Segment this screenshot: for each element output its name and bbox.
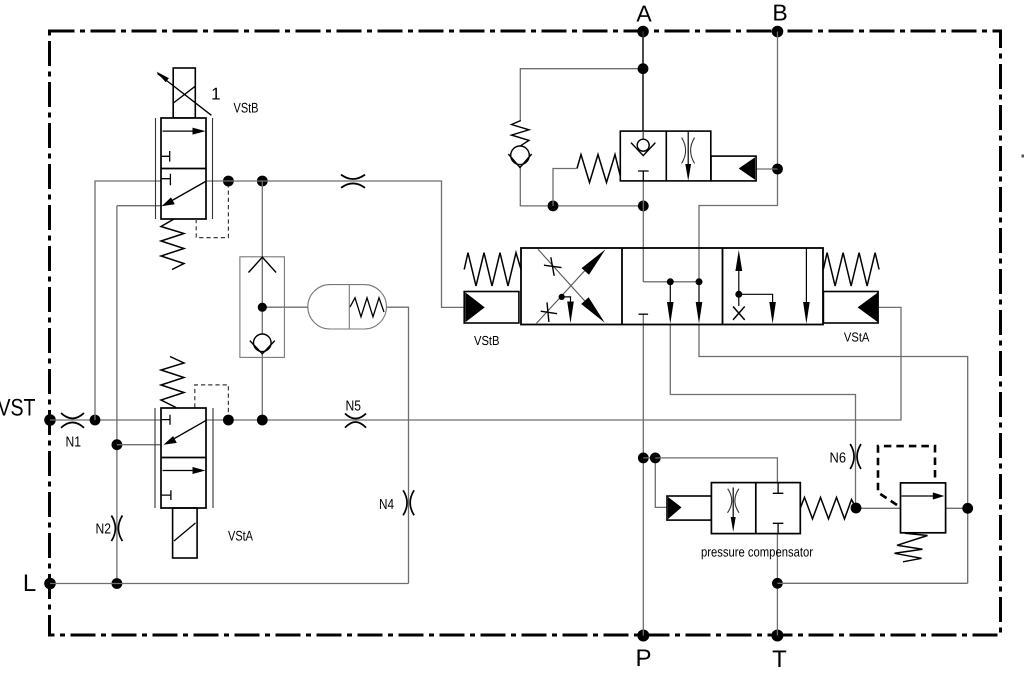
middle position junction dot B xyxy=(696,278,703,285)
svg-text:VStA: VStA xyxy=(228,528,254,544)
VStB top box blocked port xyxy=(161,151,170,162)
dashed pilot line VStB xyxy=(196,186,228,238)
VStB bottom box blocked port xyxy=(161,174,170,185)
wire main valve second LS port to right loop xyxy=(699,325,968,584)
compensator throttle with arrow xyxy=(728,488,740,533)
wire P line branch to compensator xyxy=(643,458,667,508)
middle position junction dot A xyxy=(667,278,674,285)
solenoid of pilot operated check valve xyxy=(711,156,756,181)
VStB bottom box diagonal flow arrow xyxy=(162,182,206,207)
blocked port in left position xyxy=(638,171,649,181)
junction dot VST at dashed pilot xyxy=(223,415,234,426)
orifice N6 xyxy=(830,444,862,469)
junction dot VStB pilot output 2 xyxy=(257,176,268,187)
svg-text:N6: N6 xyxy=(830,451,847,467)
junction dot VStA arrow port xyxy=(112,439,123,450)
spring loaded check valve on A branch xyxy=(508,121,531,168)
pilot operated check valve body xyxy=(620,131,711,181)
center check block body xyxy=(240,257,285,358)
check ball in block xyxy=(253,334,271,352)
wire relief valve right side xyxy=(946,507,968,509)
right position up arrow xyxy=(735,250,742,294)
node L (port L) xyxy=(23,570,56,597)
left position crossed flow path 2 xyxy=(538,249,605,322)
junction dot left of relief valve xyxy=(851,503,862,514)
spring of pilot operated check valve xyxy=(577,155,621,183)
node B (port B) xyxy=(772,0,788,37)
junction dot on A line xyxy=(638,63,649,74)
svg-text:A: A xyxy=(636,1,652,27)
wire accumulator to N4 line down to L xyxy=(387,307,409,583)
junction dot right of relief valve xyxy=(962,503,973,514)
junction dot B to solenoid xyxy=(772,164,783,175)
svg-text:VST: VST xyxy=(0,395,36,422)
left position crossed flow path 1 xyxy=(537,249,606,323)
wire A branch to spring check valve xyxy=(520,69,643,121)
node A (port A) xyxy=(636,1,652,38)
wire compensator top connection xyxy=(655,458,777,483)
wire VStB output to main valve left solenoid xyxy=(206,181,464,307)
middle position port link line xyxy=(643,281,699,283)
junction dot on P line at compensator xyxy=(638,453,649,464)
accumulator body xyxy=(308,285,387,329)
svg-text:N5: N5 xyxy=(346,399,362,415)
wire check block to accumulator xyxy=(262,306,308,308)
wire compensator bottom to port T xyxy=(776,534,778,636)
pilot valve VStB body xyxy=(156,118,213,219)
check seat (down) in block xyxy=(250,341,275,354)
orifice N5 xyxy=(345,399,366,428)
junction dot on T line xyxy=(772,578,783,589)
wire spring riser elbow xyxy=(553,169,577,206)
junction dot on L line xyxy=(112,578,123,589)
junction dot VST at check block xyxy=(257,415,268,426)
wire solenoid to B line xyxy=(756,168,777,170)
wire P line from main valve to port P xyxy=(642,314,644,635)
solenoid VStA side of main valve xyxy=(823,292,878,324)
svg-text:B: B xyxy=(772,0,787,26)
relief valve flow arrow xyxy=(902,492,945,499)
svg-text:pressure compensator: pressure compensator xyxy=(701,545,813,560)
node VST (port VST) xyxy=(0,395,56,426)
svg-text:VStB: VStB xyxy=(234,100,259,116)
throttle with arrow in right position xyxy=(682,131,695,181)
svg-text:1: 1 xyxy=(211,84,220,103)
spring of pilot valve VStA xyxy=(161,357,184,408)
VStA bottom box blocked port xyxy=(161,490,171,500)
pilot tap arrow in left position xyxy=(562,297,574,323)
wire from check block down into main valve middle box xyxy=(642,181,644,282)
spring of pilot valve VStB xyxy=(161,219,184,270)
pilot tap dot in left position xyxy=(559,294,565,300)
orifice on VStB pilot output line xyxy=(341,175,365,188)
wire VST supply line xyxy=(50,419,161,421)
main directional valve body xyxy=(521,248,823,325)
wire VStA arrow port xyxy=(117,444,161,446)
VStA bottom box flow arrow xyxy=(163,467,206,474)
svg-text:VStB: VStB xyxy=(474,333,500,348)
junction dot VST to x95 riser xyxy=(90,415,101,426)
wire compensator spring to relief valve xyxy=(856,507,901,509)
VStA top box blocked port xyxy=(161,415,170,425)
spring right of main valve xyxy=(823,253,879,286)
adjustable throttle mark upper xyxy=(544,257,562,276)
wire below spring check valve xyxy=(520,168,643,206)
wire riser x117 from VStB arrow port to L line xyxy=(117,206,161,584)
right position junction dot xyxy=(735,291,742,298)
compensator blocked ports xyxy=(773,483,784,534)
orifice N1 xyxy=(61,413,84,451)
VStB top box flow arrow xyxy=(163,128,206,135)
junction dot VStB pilot output 1 xyxy=(223,176,234,187)
svg-text:L: L xyxy=(23,570,36,597)
right position closed X xyxy=(733,294,745,320)
orifice N4 xyxy=(379,490,414,515)
check seat symbol (up) in block xyxy=(249,257,277,272)
svg-text:N1: N1 xyxy=(66,435,82,451)
middle position blocked P port xyxy=(639,313,649,315)
wire T line to right loop xyxy=(777,582,967,584)
wire from dot down through center check block to VST line xyxy=(261,181,263,420)
solenoid of pressure compensator xyxy=(667,496,711,520)
svg-text:T: T xyxy=(772,646,787,673)
accumulator spring xyxy=(350,298,384,317)
node T (port T) xyxy=(771,630,787,674)
spring of pressure compensator xyxy=(800,497,856,519)
junction dot in check block xyxy=(258,303,267,312)
pilot valve VStA body xyxy=(155,408,213,508)
check valve symbol in left position xyxy=(631,131,655,156)
solenoid of pilot valve VStA xyxy=(173,508,198,558)
orifice N2 xyxy=(96,516,123,542)
pressure compensator valve body xyxy=(711,483,800,534)
wire B vertical from port B down xyxy=(699,32,778,282)
spring left of main valve xyxy=(464,253,521,286)
right position LS arrow 2 xyxy=(803,248,810,324)
dashed pilot line of relief valve xyxy=(878,446,935,505)
proportional solenoid of pilot valve VStB xyxy=(156,68,211,118)
junction dot spring riser xyxy=(548,201,559,212)
relief valve body xyxy=(901,483,946,533)
spring of relief valve xyxy=(895,533,928,562)
svg-text:P: P xyxy=(635,645,651,672)
svg-text:N2: N2 xyxy=(96,522,112,538)
middle position LS arrow 1 xyxy=(667,282,674,324)
wire main valve LS port to N6 line xyxy=(670,325,855,509)
VStA top box diagonal flow arrow xyxy=(164,420,207,444)
right position LS arrow 1 xyxy=(739,294,776,324)
wire A vertical from port A to check valve xyxy=(642,32,644,140)
node P (port P) xyxy=(635,630,651,673)
wire L line xyxy=(50,583,409,585)
solenoid VStB side of main valve xyxy=(464,292,519,324)
svg-text:N4: N4 xyxy=(379,497,394,513)
junction dot below check block xyxy=(638,201,649,212)
junction dot compensator branch xyxy=(650,453,661,464)
adjustable throttle mark lower xyxy=(541,302,557,322)
dashed pilot line VStA xyxy=(195,385,229,415)
middle position LS arrow 2 xyxy=(696,282,703,324)
wire riser x95 to VStB valve port xyxy=(95,181,161,420)
svg-text:VStA: VStA xyxy=(844,329,870,344)
